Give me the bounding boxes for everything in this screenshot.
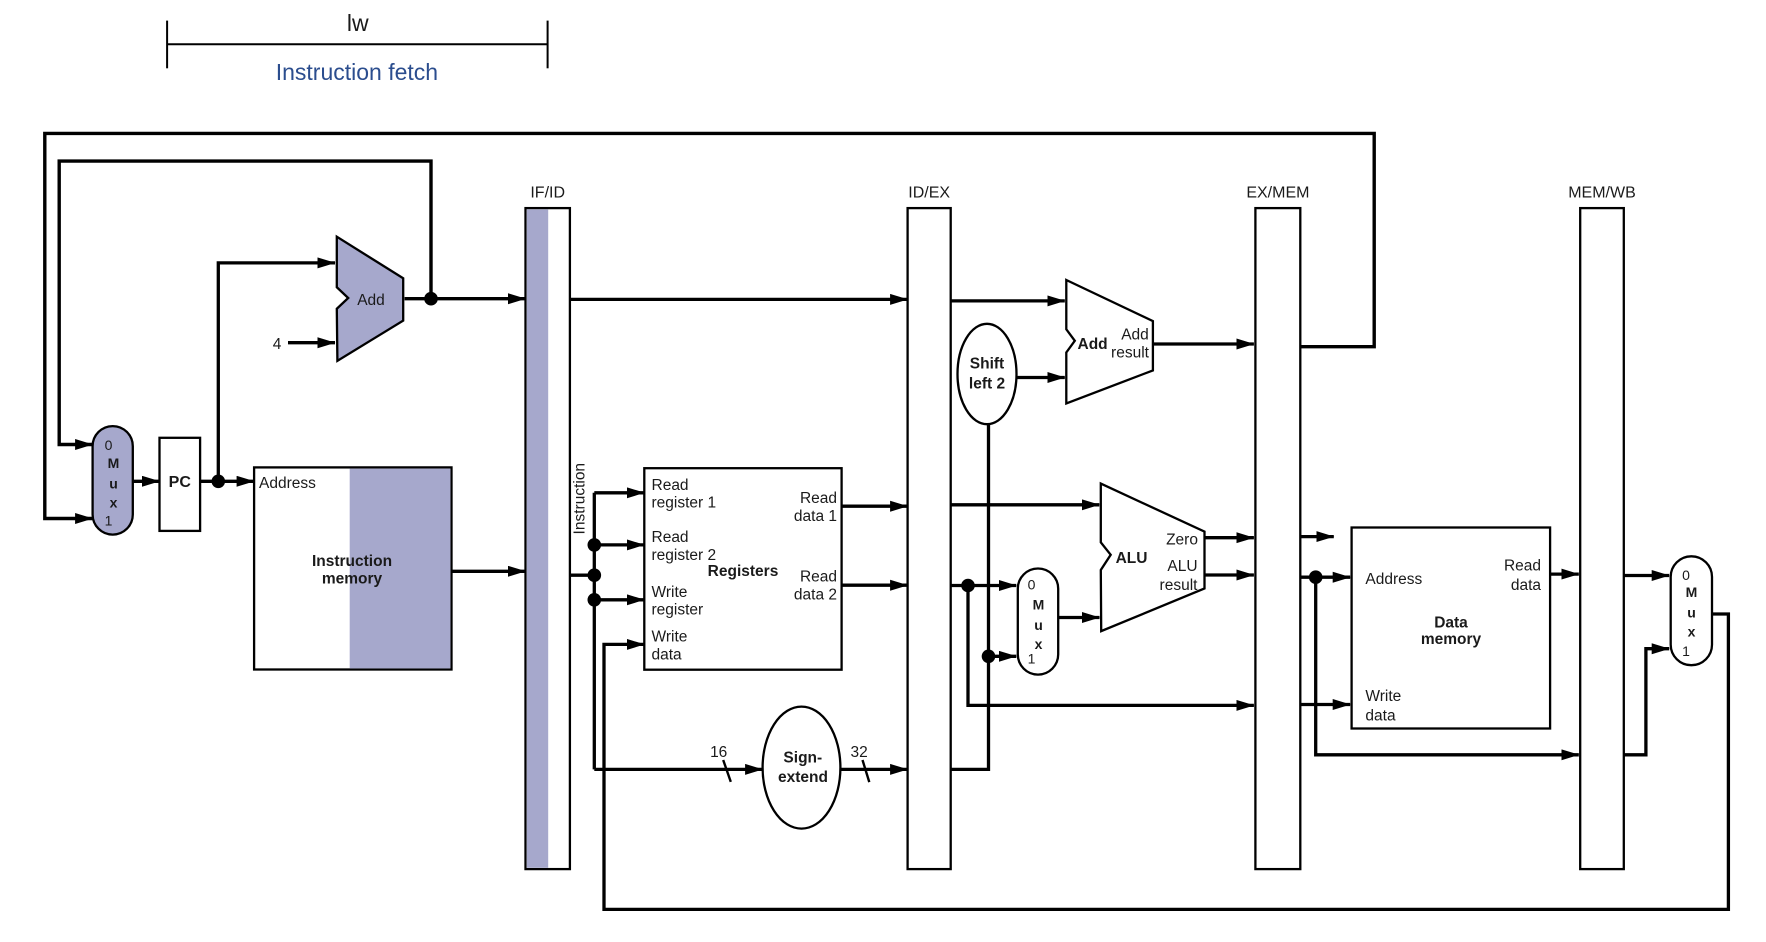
wire to Write register [594, 598, 644, 601]
wire MEM/WB to WB mux input 0 [1624, 574, 1669, 577]
svg-text:IF/ID: IF/ID [530, 185, 565, 202]
svg-text:PC: PC [169, 474, 192, 491]
bus width slash 16 [723, 760, 731, 782]
stage bracket for lw [167, 21, 547, 69]
pipeline register EX/MEM [1255, 208, 1300, 869]
svg-text:memory: memory [1421, 631, 1482, 648]
svg-text:0: 0 [105, 437, 113, 453]
svg-text:x: x [110, 494, 118, 510]
svg-text:ALU: ALU [1116, 550, 1148, 567]
wire PC to Instruction memory Address [200, 480, 254, 483]
wire sign-extend out of ID/EX up to shift left 2 [951, 424, 989, 769]
svg-text:data: data [652, 646, 683, 663]
svg-text:data: data [1511, 577, 1542, 594]
wire ALU result to EX/MEM [1205, 573, 1254, 576]
svg-text:register 1: register 1 [652, 495, 717, 512]
wire PC up to Add [218, 263, 335, 481]
wire Read data 2 branch down to EX/MEM write data [968, 586, 1254, 706]
svg-text:1: 1 [1682, 643, 1690, 659]
wire Read data to MEM/WB [1550, 572, 1579, 575]
wire Zero to EX/MEM [1205, 536, 1254, 539]
pipeline register ID/EX [908, 208, 951, 869]
svg-text:Write: Write [652, 584, 688, 601]
junction dots on instruction bus [588, 538, 602, 552]
svg-text:Write: Write [652, 629, 688, 646]
svg-text:M: M [108, 455, 120, 471]
registers block [644, 468, 841, 670]
svg-text:x: x [1688, 624, 1696, 640]
svg-text:1: 1 [105, 513, 113, 529]
sign extend unit [763, 707, 841, 829]
svg-text:1: 1 [1028, 651, 1036, 667]
junction at Add output [424, 292, 438, 306]
wire to Sign-extend [594, 768, 762, 771]
mux M3 (write back mux) [1671, 556, 1712, 665]
svg-text:Data: Data [1434, 615, 1468, 632]
svg-text:Read: Read [1504, 558, 1541, 575]
svg-text:Shift: Shift [970, 356, 1004, 373]
svg-text:register: register [652, 602, 704, 619]
node instruction bus [570, 493, 594, 770]
svg-text:0: 0 [1028, 577, 1036, 593]
svg-text:Write: Write [1365, 688, 1401, 705]
svg-text:M: M [1033, 596, 1045, 612]
wire PC+4 feedback loop (Add out to PC mux input 0) [59, 161, 431, 444]
svg-text:Zero: Zero [1166, 532, 1198, 549]
junction read data 2 [961, 579, 975, 593]
pipeline register MEM/WB [1580, 208, 1624, 869]
svg-text:data: data [1365, 707, 1396, 724]
wire PC+4 IF/ID to ID/EX [570, 298, 908, 301]
wire mux to PC [133, 480, 160, 483]
wire to Read register 1 [594, 491, 644, 494]
instruction memory [254, 467, 451, 669]
svg-text:result: result [1160, 577, 1199, 594]
svg-text:result: result [1111, 345, 1150, 362]
wire Add result to EX/MEM [1153, 342, 1254, 345]
svg-text:Address: Address [1365, 571, 1422, 588]
wire Read data 2 to ID/EX [842, 584, 908, 587]
svg-text:lw: lw [347, 10, 369, 36]
svg-text:Read: Read [652, 477, 689, 494]
adder Add (branch target) [1066, 280, 1153, 404]
svg-text:Instruction fetch: Instruction fetch [276, 59, 438, 85]
svg-text:ID/EX: ID/EX [908, 185, 950, 202]
svg-text:16: 16 [710, 744, 727, 761]
wire Sign-extend out to ID/EX [840, 768, 907, 771]
svg-text:4: 4 [273, 336, 282, 353]
svg-text:Read: Read [800, 490, 837, 507]
bus width slash 32 [863, 760, 870, 782]
svg-text:u: u [109, 475, 118, 491]
mux M1 (PC source mux) [93, 426, 133, 534]
pipeline register IF/ID (left half shaded) [526, 208, 570, 869]
wire mux to ALU [1058, 616, 1099, 619]
wire Read data 2 to ALU mux [951, 584, 1017, 587]
svg-text:EX/MEM: EX/MEM [1246, 185, 1309, 202]
wire 4 to Add [288, 341, 335, 344]
svg-text:memory: memory [322, 571, 383, 588]
junction sign-extend branch [982, 650, 996, 664]
svg-text:Read: Read [652, 529, 689, 546]
svg-text:Registers: Registers [708, 563, 779, 580]
svg-text:register 2: register 2 [652, 547, 717, 564]
wire ALU result branch down to MEM/WB [1316, 577, 1579, 755]
svg-text:data 1: data 1 [794, 508, 837, 525]
svg-text:MEM/WB: MEM/WB [1568, 185, 1636, 202]
alu ALU [1101, 484, 1205, 631]
svg-text:data 2: data 2 [794, 586, 837, 603]
svg-text:ALU: ALU [1167, 558, 1197, 575]
junction at PC output [212, 475, 226, 489]
register PC [160, 438, 201, 531]
wire write back mux out to Registers Write data [604, 614, 1728, 909]
wire PC+4 ID/EX to Add [951, 299, 1065, 302]
wire ALU result EX/MEM to Data memory Address [1300, 576, 1350, 579]
svg-text:32: 32 [850, 744, 867, 761]
svg-text:extend: extend [778, 769, 828, 786]
svg-text:Add: Add [357, 292, 385, 309]
wire branch feedback loop (EX/MEM to PC mux input 1) [45, 133, 1374, 518]
mux M2 (ALU source mux) [1018, 569, 1058, 675]
svg-text:M: M [1686, 584, 1698, 600]
wire Zero stub out of EX/MEM [1300, 535, 1334, 538]
wire Read data 1 to ID/EX [842, 505, 908, 508]
svg-text:Read: Read [800, 569, 837, 586]
wire ALU result bypass to WB mux input 1 [1624, 649, 1669, 755]
wire branch to ALU mux input 1 [989, 655, 1017, 658]
svg-text:Sign-: Sign- [783, 750, 822, 767]
svg-text:Add: Add [1121, 327, 1149, 344]
svg-text:0: 0 [1682, 567, 1690, 583]
shifter Shift left 2 [958, 324, 1017, 424]
svg-text:u: u [1034, 617, 1043, 633]
wire Add out to IF/ID [405, 297, 526, 300]
adder Add (IF stage, shaded) [337, 237, 403, 361]
svg-text:x: x [1035, 636, 1043, 652]
svg-text:Add: Add [1078, 336, 1108, 353]
svg-text:Instruction: Instruction [312, 553, 392, 570]
svg-text:left 2: left 2 [969, 375, 1005, 392]
data memory block [1352, 528, 1551, 729]
wire Read data 1 to ALU [951, 503, 1100, 506]
wire Instruction memory out to IF/ID [452, 570, 526, 573]
svg-text:Instruction: Instruction [572, 463, 589, 535]
svg-text:Address: Address [259, 475, 316, 492]
junction ALU result [1309, 570, 1323, 584]
svg-text:u: u [1687, 605, 1696, 621]
wire to Read register 2 [594, 543, 644, 546]
wire write data EX/MEM to Data memory [1300, 703, 1350, 706]
wire Shift left 2 to Add [1017, 376, 1065, 379]
